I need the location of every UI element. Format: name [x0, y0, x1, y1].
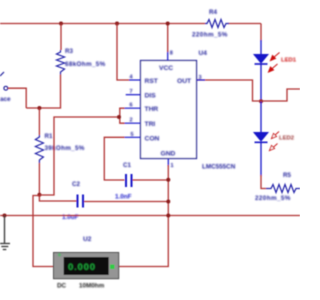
svg-text:8: 8: [170, 51, 173, 57]
svg-text:220hm_5%: 220hm_5%: [192, 32, 228, 39]
svg-text:1: 1: [171, 163, 174, 169]
svg-text:2: 2: [130, 118, 133, 124]
svg-text:+: +: [58, 252, 62, 259]
svg-text:0.000: 0.000: [68, 262, 96, 273]
node junction R1 top: [37, 106, 41, 110]
svg-text:10M0hm: 10M0hm: [79, 283, 105, 290]
LED LED2: [254, 102, 268, 177]
svg-text:U4: U4: [199, 50, 208, 57]
node junction R1/C2/THR: [37, 193, 41, 197]
wire CON pin5 to C1: [104, 137, 124, 180]
wire R3 bottom to switch line: [26, 75, 60, 109]
wire RST pin4: [117, 24, 130, 81]
resistor R3: [57, 50, 65, 75]
svg-text:R1: R1: [45, 133, 53, 140]
ground symbol: [0, 216, 10, 250]
wire OUT pin3: [197, 80, 262, 101]
LED2 arrows (hollow): [270, 132, 280, 151]
pin 5 stub: [124, 136, 140, 138]
svg-text:U2: U2: [83, 236, 92, 243]
svg-text:DIS: DIS: [145, 93, 157, 100]
pin 7 stub: [126, 94, 141, 96]
svg-text:39kOhm_5%: 39kOhm_5%: [45, 145, 85, 152]
svg-text:GND: GND: [161, 151, 176, 158]
svg-text:LED2: LED2: [279, 136, 295, 142]
op-amp U4 555 chip body: [141, 61, 197, 159]
node junction R3 on rail: [59, 22, 63, 26]
pin 8 stub: [167, 51, 169, 61]
wire LED1 drop from rail: [260, 24, 262, 42]
svg-text:THR: THR: [145, 106, 159, 113]
switch J1 terminal: [4, 86, 8, 90]
wire R3 drop: [60, 24, 62, 51]
svg-text:LMC555CN: LMC555CN: [202, 164, 236, 171]
svg-text:R4: R4: [209, 9, 217, 16]
svg-text:68kOhm_5%: 68kOhm_5%: [65, 61, 106, 68]
wire switch to junction: [8, 88, 26, 108]
multimeter U2 box: [54, 253, 119, 279]
svg-text:1.0nF: 1.0nF: [115, 194, 132, 201]
LED LED1: [254, 40, 268, 102]
resistor R4: [205, 20, 229, 28]
resistor R5: [266, 185, 300, 193]
resistor R1: [35, 135, 43, 163]
node junction rail/pin1: [166, 214, 170, 218]
wire R1 bottom lead: [38, 163, 40, 195]
svg-text:R3: R3: [65, 48, 73, 55]
wire top VCC rail: [0, 23, 205, 25]
LED1 arrows (filled red): [269, 53, 280, 73]
svg-text:OUT: OUT: [177, 78, 192, 85]
svg-text:DC: DC: [57, 283, 67, 290]
wire LED2 cathode to R5: [261, 175, 266, 189]
pin 3 stub: [197, 79, 206, 81]
svg-text:7: 7: [130, 89, 133, 95]
switch J1 lever: [0, 72, 4, 76]
node junction LED1/LED2/OUT: [259, 99, 263, 103]
svg-text:C1: C1: [123, 162, 131, 169]
svg-text:ace: ace: [0, 96, 11, 103]
node junction pin8 on rail: [166, 22, 170, 26]
node junction RST wire on rail: [115, 22, 119, 26]
wire THR-TRI tie: [120, 108, 125, 123]
node junction rail/ground: [3, 214, 7, 218]
wire node to meter left: [33, 196, 54, 267]
svg-text:VCC: VCC: [159, 65, 173, 72]
capacitor C1: [126, 174, 132, 187]
wire C1 right lead: [133, 179, 169, 181]
wire R1 top lead: [38, 108, 40, 135]
wire pin1 down to meter: [119, 165, 169, 267]
svg-text:TRI: TRI: [145, 121, 156, 128]
svg-text:C2: C2: [72, 181, 80, 188]
svg-text:220hm_5%: 220hm_5%: [255, 195, 291, 202]
svg-text:5: 5: [131, 132, 134, 138]
meter green minus: [110, 265, 115, 270]
svg-text:LED1: LED1: [281, 58, 297, 64]
wire ground rail: [0, 215, 300, 217]
wire pin8 to rail: [167, 24, 169, 53]
pin 2 stub: [124, 122, 141, 124]
svg-text:3: 3: [199, 75, 202, 81]
svg-text:CON: CON: [145, 135, 160, 142]
svg-text:6: 6: [130, 103, 133, 109]
pin 6 stub: [124, 107, 141, 109]
svg-text:R5: R5: [283, 172, 291, 179]
wire node to C2: [39, 195, 76, 201]
pin 1 stub: [167, 159, 169, 166]
wire THR/TRI to node: [39, 117, 119, 195]
wire top rail right of R4: [228, 23, 261, 25]
node junction THR/TRI tap: [117, 115, 121, 119]
node junction C2 lead: [166, 200, 170, 204]
wire from junction to right edge: [261, 89, 300, 101]
wire C2 right lead: [84, 201, 168, 203]
svg-text:RST: RST: [145, 78, 159, 85]
capacitor C2: [78, 195, 84, 208]
pin 4 stub: [129, 79, 141, 81]
node junction C1 lead: [166, 178, 170, 182]
